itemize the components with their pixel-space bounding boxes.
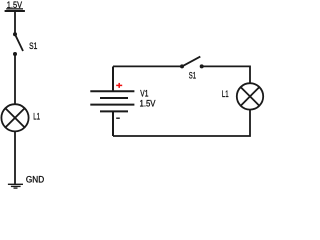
svg-text:L1: L1 <box>33 111 40 121</box>
wire switch to lamp (top right corner) <box>202 66 250 83</box>
switch S1 (left) <box>13 32 23 56</box>
svg-text:S1: S1 <box>189 71 196 81</box>
switch S1 (right) <box>180 57 204 69</box>
svg-text:S1: S1 <box>29 41 37 51</box>
svg-text:L1: L1 <box>222 89 229 99</box>
svg-text:V1: V1 <box>140 88 148 98</box>
wire rail to switch <box>14 11 16 34</box>
wire lamp to ground <box>14 131 16 184</box>
battery plus mark <box>116 83 122 88</box>
wire switch to lamp <box>14 54 16 105</box>
svg-text:1.5V: 1.5V <box>140 99 157 109</box>
wire lamp to bottom and back to battery <box>113 110 250 136</box>
wire battery to switch (top) <box>113 65 182 67</box>
lamp L1 (left) <box>1 104 28 131</box>
power rail bar <box>5 10 25 12</box>
lamp L1 (right) <box>237 83 263 109</box>
net label underline <box>6 8 23 10</box>
svg-text:GND: GND <box>26 174 45 184</box>
battery minus mark <box>116 117 120 119</box>
battery V1 <box>90 67 134 137</box>
ground <box>8 184 23 188</box>
